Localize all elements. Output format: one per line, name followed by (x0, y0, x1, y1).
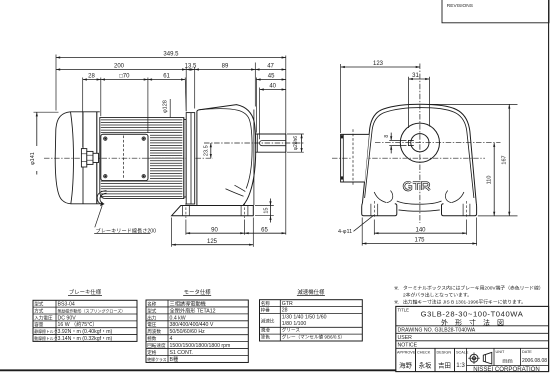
base hole right edge lines (240, 206, 242, 216)
svg-text:S1 CONT.: S1 CONT. (170, 350, 193, 356)
svg-text:DC 90V: DC 90V (58, 315, 77, 321)
svg-text:2本がバラ出しとなっています。: 2本がバラ出しとなっています。 (403, 291, 472, 298)
output shaft (255, 134, 285, 152)
svg-text:0.4 kW: 0.4 kW (170, 315, 186, 321)
output shaft circle (411, 134, 429, 152)
dim 13.5 (186, 69, 195, 71)
svg-text:140: 140 (415, 227, 426, 233)
left foot (362, 203, 397, 215)
svg-text:※.: ※. (394, 285, 399, 291)
svg-text:125: 125 (207, 239, 218, 245)
svg-text:回転速度: 回転速度 (147, 342, 166, 349)
svg-text:89: 89 (222, 64, 229, 70)
svg-text:全閉外扇形 TETA12: 全閉外扇形 TETA12 (170, 306, 216, 314)
svg-text:絶縁クラス: 絶縁クラス (147, 357, 166, 362)
svg-text:110: 110 (487, 176, 493, 185)
extension lines bottom dims (right view) (361, 218, 363, 246)
dim 349.5 overall (56, 57, 286, 59)
svg-text:吉田: 吉田 (438, 361, 451, 369)
svg-text:NISSEI CORPORATION: NISSEI CORPORATION (473, 366, 540, 373)
svg-text:23.5: 23.5 (203, 145, 209, 156)
svg-text:65: 65 (261, 227, 268, 233)
terminal box centerline horizontal (102, 157, 148, 159)
svg-text:31: 31 (412, 73, 419, 79)
shaft boss circle (400, 123, 439, 162)
svg-text:入力電圧: 入力電圧 (34, 314, 53, 321)
gearcase input flange (186, 113, 195, 204)
svg-text:減速機仕様: 減速機仕様 (297, 288, 325, 296)
extension lines top dims (55, 55, 57, 111)
keyway slot (408, 140, 413, 145)
svg-text:無励磁作動形（スプリングクローズ）: 無励磁作動形（スプリングクローズ） (58, 307, 126, 313)
svg-text:B種: B種 (170, 355, 179, 363)
svg-text:グリース: グリース (282, 327, 301, 334)
brake lead leader line (95, 206, 102, 228)
svg-text:方式: 方式 (34, 307, 44, 314)
svg-text:4-φ11: 4-φ11 (338, 229, 352, 235)
dim 90 (186, 232, 245, 234)
svg-text:15: 15 (264, 208, 270, 214)
svg-text:φ28h6: φ28h6 (293, 136, 299, 151)
dim 47 (255, 69, 285, 71)
svg-text:349.5: 349.5 (163, 52, 179, 58)
svg-text:型式: 型式 (147, 307, 157, 313)
base hole left centerline (185, 203, 187, 218)
table frame: ブレーキ仕様 (33, 300, 137, 341)
gearcase rib crease (226, 185, 246, 196)
GTR logo (404, 182, 430, 190)
approver columns (415, 348, 417, 371)
svg-text:□70: □70 (119, 74, 130, 80)
box corner screw top (341, 135, 344, 138)
terminal box hidden centerline vertical (123, 136, 125, 180)
left foot hole centerline (373, 201, 375, 219)
svg-text:φ128: φ128 (163, 100, 169, 113)
svg-text:DRAWING NO. G3LB28-T040WA: DRAWING NO. G3LB28-T040WA (398, 328, 476, 334)
base foot (left view) (172, 206, 254, 216)
svg-text:TITLE: TITLE (398, 308, 410, 313)
svg-text:潤滑: 潤滑 (261, 327, 271, 334)
svg-text:名称: 名称 (261, 300, 271, 307)
terminal box screw bottom-left (104, 175, 107, 178)
box hidden line vertical (352, 129, 354, 186)
svg-text:定格: 定格 (147, 349, 157, 356)
gearcase housing inner wall (front view) (365, 108, 474, 198)
top boss rib lines (408, 77, 410, 128)
svg-text:UNIT: UNIT (496, 350, 506, 354)
svg-text:極数: 極数 (147, 335, 157, 342)
svg-text:三相誘導電動機: 三相誘導電動機 (170, 299, 206, 307)
bridge between feet lower edge (399, 210, 440, 211)
svg-text:枠番: 枠番 (261, 307, 271, 314)
svg-text:1/80 1/100: 1/80 1/100 (282, 321, 307, 327)
dim 175 (362, 243, 476, 245)
svg-text:CHECK: CHECK (417, 351, 431, 355)
svg-text:φ141: φ141 (30, 152, 36, 165)
dim 123 (341, 66, 420, 68)
third angle projection symbol (470, 354, 478, 362)
svg-text:45: 45 (268, 74, 275, 80)
motor left flange line (96, 112, 98, 204)
cable gland on brake housing (81, 149, 86, 167)
terminal box screw top-left (104, 137, 107, 140)
title block frame (396, 306, 549, 371)
right foot (442, 203, 477, 215)
svg-text:mm: mm (502, 358, 512, 365)
dim 15 base height (255, 205, 274, 207)
svg-text:1:3: 1:3 (456, 362, 465, 369)
leg curl right (445, 191, 451, 203)
svg-text:海野: 海野 (399, 360, 412, 369)
gearcase inner wall line (200, 109, 253, 189)
svg-text:外形寸法図: 外形寸法図 (441, 318, 511, 327)
svg-text:123: 123 (373, 61, 384, 67)
dim 200 (56, 69, 186, 71)
dim square70 (101, 79, 148, 81)
svg-text:永坂: 永坂 (419, 360, 432, 369)
svg-text:DESIGN: DESIGN (437, 351, 452, 355)
svg-text:47: 47 (267, 64, 274, 70)
box corner screw bottom (341, 176, 344, 179)
right foot hole edges (462, 204, 464, 216)
svg-text:28: 28 (88, 74, 95, 80)
box centerline (332, 157, 352, 159)
motor end plate (183, 118, 185, 199)
svg-text:ブレーキ仕様: ブレーキ仕様 (69, 288, 102, 296)
wire: output shaft centerline (left view) (204, 142, 304, 144)
svg-text:G3LB-28-30~100-T040WA: G3LB-28-30~100-T040WA (421, 309, 524, 318)
wire: motor centerline (left view) (44, 157, 213, 159)
shaft keyway (260, 141, 286, 146)
REVISIONS box (442, 0, 549, 23)
shaft shoulder (256, 134, 258, 152)
svg-text:グレー（マンセル値 9B6/0.5）: グレー（マンセル値 9B6/0.5） (282, 334, 345, 341)
dim 45 (256, 79, 285, 81)
extension lines bottom dims (left view) (171, 218, 173, 247)
brake housing joint line (82, 112, 84, 149)
base hole right centerline (244, 203, 246, 218)
gearcase housing outline (front view) (362, 104, 476, 203)
base hole left edge lines (182, 206, 184, 216)
right foot hole centerline (466, 201, 468, 219)
svg-text:200: 200 (114, 64, 125, 70)
svg-text:名称: 名称 (147, 300, 157, 307)
brake cap joint line (71, 112, 74, 204)
brake lead wire curl (97, 191, 106, 205)
svg-text:ターミナルボックス内にはブレーキ用200V端子（赤色リード線: ターミナルボックス内にはブレーキ用200V端子（赤色リード線） (403, 284, 544, 291)
svg-text:3.92N・m (0.40kgf・m): 3.92N・m (0.40kgf・m) (58, 329, 113, 335)
svg-text:塗色: 塗色 (261, 334, 271, 340)
dim 31 (409, 78, 430, 80)
dim 8 keyway (389, 139, 406, 141)
svg-text:8: 8 (384, 135, 390, 138)
dim 89 (195, 69, 256, 71)
dim 61 (148, 79, 185, 81)
svg-text:3.14N・m (0.32kgf・m): 3.14N・m (0.32kgf・m) (58, 336, 113, 342)
svg-text:380/400/400/440 V: 380/400/400/440 V (170, 322, 214, 328)
svg-text:4: 4 (170, 336, 173, 342)
projection symbol box (493, 348, 495, 365)
unit cell (520, 348, 522, 365)
brake housing bottom edge (71, 203, 100, 205)
leg curl left (387, 191, 393, 203)
brake housing top edge (71, 111, 100, 113)
svg-text:40: 40 (269, 84, 276, 90)
svg-text:APPROVE: APPROVE (397, 351, 416, 355)
svg-text:NOTICE: NOTICE (398, 343, 418, 349)
svg-text:静摩擦トルク: 静摩擦トルク (34, 329, 57, 334)
svg-text:USER: USER (398, 335, 413, 341)
svg-text:1500/1500/1800/1800 rpm: 1500/1500/1800/1800 rpm (170, 343, 231, 349)
svg-text:2006.08.08: 2006.08.08 (522, 358, 547, 364)
svg-text:減速比: 減速比 (261, 317, 275, 324)
right view output shaft centerline (375, 142, 501, 144)
terminal box (101, 134, 148, 180)
output shaft boss face (253, 110, 255, 206)
dim 28 (83, 79, 101, 81)
motor body outline (100, 118, 184, 199)
left foot hole edges (370, 204, 372, 216)
dim 40 (260, 89, 286, 91)
terminal box (front view, left side) (341, 134, 369, 182)
bridge between feet upper edge (374, 192, 464, 203)
svg-text:50/50/60/60 Hz: 50/50/60/60 Hz (170, 329, 206, 335)
svg-text:61: 61 (163, 74, 170, 80)
dim 125 (172, 244, 254, 246)
svg-text:型式: 型式 (34, 301, 44, 307)
svg-text:※.: ※. (394, 299, 399, 305)
svg-text:ブレーキリード線長さ200: ブレーキリード線長さ200 (96, 226, 157, 234)
svg-text:モータ仕様: モータ仕様 (184, 288, 212, 296)
svg-text:容量: 容量 (34, 321, 44, 328)
dim 110 (493, 143, 495, 216)
table frame: モータ仕様 (146, 300, 248, 362)
svg-text:出力: 出力 (147, 314, 157, 321)
gearcase body (left view) (197, 105, 256, 206)
brake end cap (fan cover) (55, 112, 71, 204)
svg-text:90: 90 (211, 227, 218, 233)
border frame right edge (548, 0, 550, 371)
dim 23.5 offset (210, 143, 212, 158)
terminal box screw top-right (142, 137, 145, 140)
dim 65 (245, 232, 286, 234)
dim phi28h6 (287, 133, 304, 135)
svg-text:動摩擦トルク: 動摩擦トルク (34, 336, 57, 341)
dim 167 (429, 103, 518, 105)
svg-text:16 W （約75℃）: 16 W （約75℃） (58, 320, 98, 328)
svg-text:GTR: GTR (282, 301, 293, 307)
svg-text:REVISIONS: REVISIONS (447, 3, 473, 9)
right view motor centerline (352, 157, 485, 159)
motor cooling fins (101, 120, 183, 196)
terminal box screw bottom-right (142, 175, 145, 178)
svg-text:175: 175 (414, 238, 425, 244)
svg-text:出力軸キー寸法は JIS B 1301-1996平行キーに依: 出力軸キー寸法は JIS B 1301-1996平行キーに依ります。 (403, 298, 526, 305)
svg-text:SCALE: SCALE (456, 351, 469, 355)
svg-text:DATE: DATE (522, 350, 532, 354)
right view vertical centerline (419, 64, 421, 224)
svg-text:周波数: 周波数 (147, 328, 161, 335)
svg-text:1/30 1/40 1/50 1/60: 1/30 1/40 1/50 1/60 (282, 314, 327, 320)
dim 140 (374, 232, 466, 234)
svg-text:BS3-04: BS3-04 (58, 302, 75, 308)
svg-text:28: 28 (282, 308, 288, 314)
border frame bottom edge (0, 369, 396, 371)
svg-text:167: 167 (502, 155, 508, 164)
